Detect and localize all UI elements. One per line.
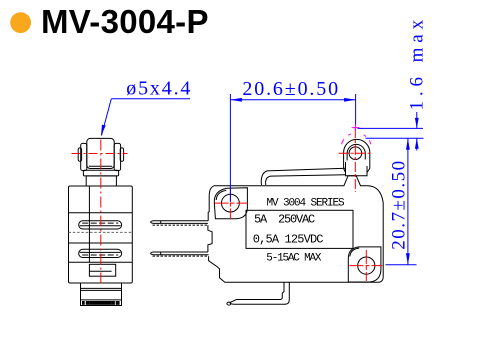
leader shoulder line [111, 98, 190, 100]
front body left edge between terminals [208, 225, 212, 252]
bottom-right mounting ear [348, 247, 381, 282]
side view horizontal line 2 [69, 242, 133, 244]
front lever arm [261, 168, 346, 185]
magenta phantom arc (roller free position) [342, 133, 371, 144]
front terminal 2 [151, 252, 209, 255]
dim 20.6 line [230, 99, 355, 101]
dim 20.7 extension line bottom [386, 264, 417, 266]
svg-text:5-15AC MAX: 5-15AC MAX [266, 252, 322, 264]
dim 1.6 extension line bottom [366, 137, 424, 139]
side view dashed mid line [69, 231, 133, 233]
dim 20.6 extension line right [355, 94, 357, 125]
svg-text:0,5A 125VDC: 0,5A 125VDC [253, 232, 324, 246]
front body outline top and right [208, 176, 383, 283]
side view main body [69, 186, 133, 283]
side view left pivot pin [78, 148, 81, 161]
top-left mounting ear [214, 188, 247, 219]
dim 20.7 line [407, 138, 409, 264]
dim 20.6 extension line left [229, 94, 231, 202]
bottom-right hole red cross [350, 265, 383, 267]
side view inner vertical line [88, 186, 90, 262]
side view terminal slot 1 [79, 221, 122, 229]
leader arrowhead [101, 125, 106, 136]
side view lever bar [83, 170, 118, 176]
leader line [102, 99, 112, 136]
front roller housing outer [344, 139, 370, 168]
side view base black pads [82, 301, 85, 305]
side view roller inner bottom line [89, 165, 112, 167]
label box [246, 210, 353, 248]
top-left hole red cross [215, 202, 248, 204]
side view right pivot pin [120, 148, 123, 161]
front roller housing inner arc [347, 144, 365, 160]
side view red horizontal center line [72, 153, 128, 155]
side view right bracket [114, 143, 120, 170]
dim 1.6 arrow above [416, 112, 418, 128]
side view base [81, 283, 122, 306]
svg-text:20.7±0.50: 20.7±0.50 [389, 159, 410, 249]
wire lever under body [230, 282, 289, 304]
dim 1.6 extension line top [358, 127, 424, 129]
bottom-right mounting hole [358, 257, 375, 274]
front roller circle [349, 147, 362, 160]
svg-text:1.6 max: 1.6 max [406, 15, 427, 111]
svg-text:5A 250VAC: 5A 250VAC [254, 212, 315, 226]
dim 1.6 arrow below [416, 138, 418, 150]
side view plunger neck [86, 176, 116, 186]
front roller red center lines [339, 152, 373, 154]
top-left mounting hole [222, 194, 240, 212]
side view horizontal line 3 [69, 261, 133, 263]
side view small rectangle detail [89, 264, 115, 276]
svg-text:20.6±0.50: 20.6±0.50 [242, 78, 340, 100]
svg-text:MV 3004 SERIES: MV 3004 SERIES [267, 198, 346, 210]
front plunger stem [345, 162, 347, 176]
dim 20.7 arrows [406, 138, 410, 150]
magenta cross top of roller free position [352, 127, 360, 129]
front terminal 1 [151, 221, 209, 224]
svg-text:ø5x4.4: ø5x4.4 [126, 78, 192, 100]
side view red vertical center line [100, 140, 102, 285]
svg-text:MV-3004-P: MV-3004-P [41, 3, 209, 40]
side view terminal slot 2 [79, 249, 122, 257]
title bullet [10, 12, 31, 33]
side view roller [87, 138, 114, 168]
side view horizontal line 1 [69, 212, 133, 214]
side view left bracket [81, 143, 87, 170]
dim 20.6 arrows [230, 98, 242, 102]
